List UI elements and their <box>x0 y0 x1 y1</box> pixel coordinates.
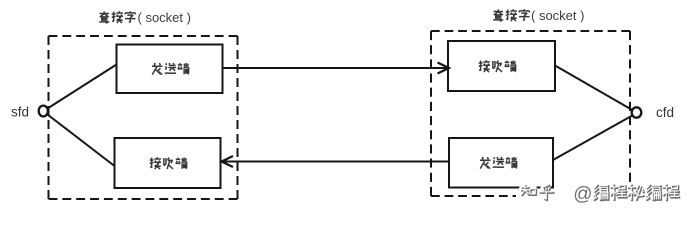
svg-text:cfd: cfd <box>656 105 674 120</box>
dashed socket box left <box>49 36 238 199</box>
svg-text:( socket ): ( socket ) <box>531 8 584 23</box>
wire right sender to cfd <box>553 116 632 161</box>
svg-text:sfd: sfd <box>11 105 29 120</box>
arrow top left-to-right <box>223 67 449 69</box>
label sender right <box>480 157 517 169</box>
box sender right <box>449 138 553 188</box>
label sender left <box>152 63 189 75</box>
box receiver right <box>448 41 555 91</box>
node sfd circle <box>39 106 48 117</box>
node cfd circle <box>632 107 642 117</box>
label receiver right <box>479 60 517 72</box>
arrow bottom right-to-left <box>222 161 450 163</box>
svg-text:( socket ): ( socket ) <box>138 10 191 25</box>
label receiver left <box>150 157 188 169</box>
wire sfd to left sender <box>48 65 117 109</box>
wire sfd to left receiver <box>48 115 115 167</box>
label socket right <box>493 9 529 21</box>
box receiver left <box>115 138 221 188</box>
svg-text:@: @ <box>573 184 592 205</box>
watermark 知乎 @xxxx <box>516 183 679 206</box>
dashed socket box right <box>431 31 630 196</box>
label socket left <box>99 11 135 23</box>
wire right receiver to cfd <box>555 66 632 111</box>
box sender left <box>117 45 223 94</box>
